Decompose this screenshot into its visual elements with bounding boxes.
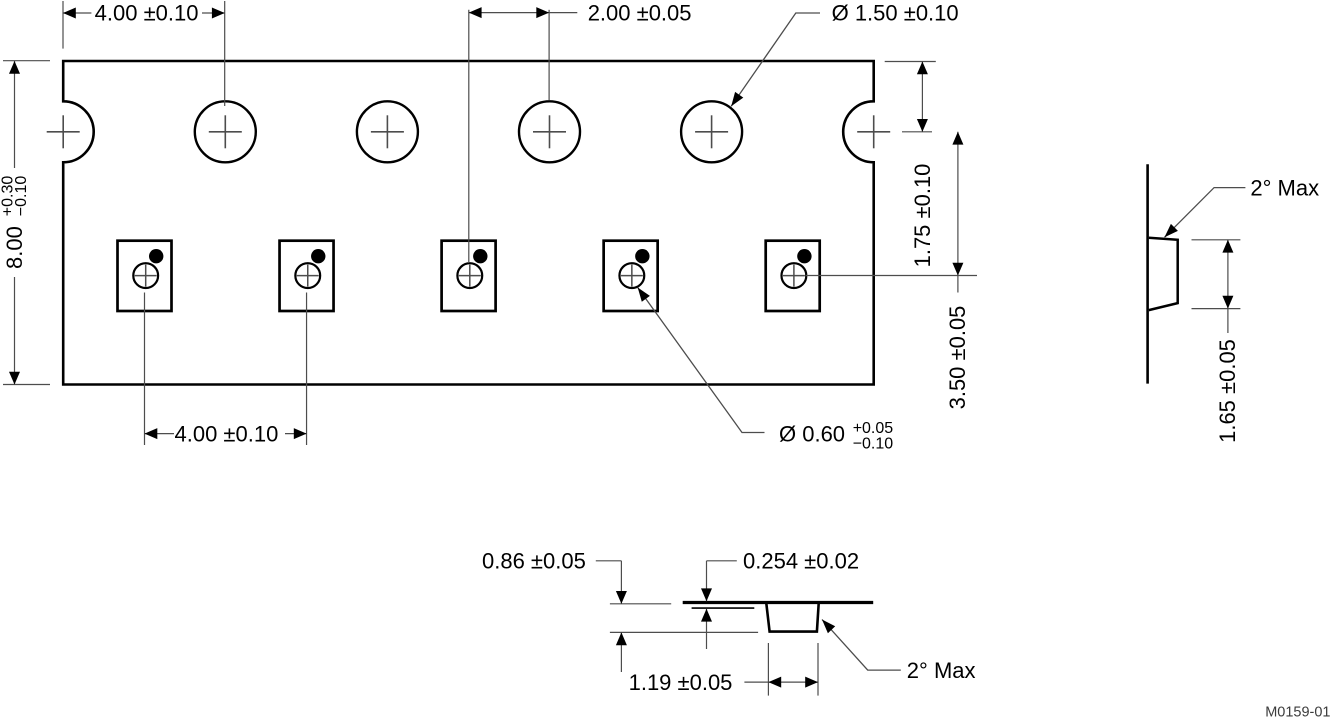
- svg-text:Ø 0.60: Ø 0.60: [779, 421, 845, 446]
- centerline cross, sprocket position 4: [533, 115, 566, 148]
- pocket 4 center hole (circle Ø0.60): [619, 263, 644, 288]
- pocket 2 polarity dot (filled): [311, 249, 325, 263]
- centerline cross, sprocket position 2: [209, 115, 242, 148]
- pocket 3 center hole (circle Ø0.60): [457, 263, 482, 288]
- svg-text:1.75 ±0.10: 1.75 ±0.10: [910, 164, 935, 268]
- dimension text 3.50 ±0.05 (rotated): [945, 306, 970, 410]
- component pocket 5 (rectangle): [766, 241, 820, 311]
- svg-text:M0159-01: M0159-01: [1265, 705, 1330, 717]
- pocket 1 polarity dot (filled): [149, 249, 163, 263]
- section view: tape (thick line): [683, 601, 874, 604]
- leader for sprocket hole diameter Ø 1.50 ±0.10: [731, 13, 820, 106]
- svg-text:−0.10: −0.10: [13, 176, 30, 217]
- dimension 1.19 dimension line + arrows: [744, 677, 818, 688]
- centerline cross, sprocket position 3: [371, 115, 404, 148]
- dimension 1.65 dimension line + arrows: [1222, 240, 1233, 333]
- svg-text:2° Max: 2° Max: [907, 658, 976, 683]
- centerline cross, sprocket position 1: [47, 115, 80, 148]
- pocket centerline extension (to right dimension): [806, 275, 977, 277]
- component pocket 1 (rectangle): [118, 241, 172, 311]
- pocket 1 centerline cross: [135, 265, 157, 287]
- dimension text Ø 1.50 ±0.10: [832, 1, 959, 26]
- pocket 5 polarity dot (filled): [797, 249, 811, 263]
- dimension 1.65 extension lines (side view): [1192, 240, 1241, 309]
- carrier tape outline (plan view) with edge notches: [63, 61, 874, 385]
- dimension 0.254 leader + arrows: [701, 561, 737, 649]
- component pocket 3 (rectangle): [442, 241, 496, 311]
- svg-text:−0.10: −0.10: [853, 435, 894, 452]
- sprocket hole 5 (circle Ø1.50): [681, 101, 742, 162]
- pocket 3 polarity dot (filled): [473, 249, 487, 263]
- svg-text:1.19 ±0.05: 1.19 ±0.05: [629, 670, 733, 695]
- component pocket 4 (rectangle): [604, 241, 658, 311]
- sprocket hole 4 (circle Ø1.50): [519, 101, 580, 162]
- dimension 8.00 dimension line + arrows (left): [9, 61, 20, 385]
- svg-text:Ø 1.50 ±0.10: Ø 1.50 ±0.10: [832, 1, 959, 26]
- dimension text 1.75 ±0.10 (rotated): [910, 164, 935, 268]
- svg-text:4.00 ±0.10: 4.00 ±0.10: [174, 421, 278, 446]
- dimension text 2.00 ±0.05: [588, 1, 692, 26]
- dimension text Ø 0.60 +0.05/-0.10: [779, 420, 893, 452]
- pocket 5 center hole (circle Ø0.60): [782, 263, 807, 288]
- dimension 1.75 extension lines (right of tape): [885, 62, 936, 132]
- leader 2° Max (side view): [1165, 188, 1246, 238]
- dimension 4.00 ±0.10 (sprocket pitch) dimension line + arrows: [63, 8, 225, 19]
- leader 2° Max (section view): [822, 620, 901, 671]
- leader for pocket hole diameter Ø 0.60: [638, 288, 765, 433]
- dimension 0.86 extension lines: [610, 604, 758, 633]
- side view: pocket profile (trapezoid): [1149, 238, 1178, 310]
- section view: tape underside reference line: [692, 607, 755, 609]
- svg-text:0.86 ±0.05: 0.86 ±0.05: [482, 549, 586, 574]
- dimension text 8.00 +0.30/-0.10 (rotated): [0, 176, 30, 269]
- dimension 1.75 dimension line + arrows: [917, 62, 928, 132]
- section view: pocket cross-section (trapezoid): [766, 603, 818, 631]
- dimension 1.19 extension lines: [768, 643, 818, 696]
- centerline cross, sprocket position 6: [857, 115, 890, 148]
- svg-text:1.65 ±0.05: 1.65 ±0.05: [1215, 339, 1240, 443]
- side view: tape edge line: [1146, 164, 1149, 383]
- svg-text:2.00 ±0.05: 2.00 ±0.05: [588, 1, 692, 26]
- svg-text:3.50 ±0.05: 3.50 ±0.05: [945, 306, 970, 410]
- dimension 4.00 ±0.10 (pocket pitch) dimension line + arrows: [145, 428, 307, 439]
- dimension text 1.65 ±0.05 (rotated): [1215, 339, 1240, 443]
- sprocket hole 3 (circle Ø1.50): [357, 101, 418, 162]
- pocket 1 center hole (circle Ø0.60): [133, 263, 158, 288]
- dimension text 4.00 ±0.10 (top): [95, 1, 199, 26]
- dimension 2.00 ±0.05 dimension line + arrows: [469, 7, 578, 18]
- dimension 4.00 ±0.10 (sprocket pitch) extension lines: [63, 1, 225, 106]
- component pocket 2 (rectangle): [280, 241, 334, 311]
- label text 2° Max (section view): [907, 658, 976, 683]
- pocket 3 centerline cross: [459, 265, 481, 287]
- dimension 3.50 dimension line + arrows: [952, 132, 963, 293]
- svg-text:0.254 ±0.02: 0.254 ±0.02: [743, 549, 859, 574]
- dimension 4.00 ±0.10 (pocket pitch) extension lines: [145, 293, 307, 446]
- dimension 2.00 ±0.05 extension lines: [469, 10, 549, 263]
- pocket 5 centerline cross: [783, 265, 805, 287]
- sprocket hole 2 (circle Ø1.50): [195, 101, 256, 162]
- svg-text:8.00: 8.00: [2, 226, 27, 269]
- dimension 8.00 extension lines (left): [3, 61, 50, 385]
- svg-text:2° Max: 2° Max: [1250, 175, 1319, 200]
- svg-text:4.00 ±0.10: 4.00 ±0.10: [95, 1, 199, 26]
- label text 2° Max (side view): [1250, 175, 1319, 200]
- pocket 4 polarity dot (filled): [635, 249, 649, 263]
- dimension text 0.86 ±0.05: [482, 549, 586, 574]
- centerline cross, sprocket position 5: [695, 115, 728, 148]
- dimension text 1.19 ±0.05: [629, 670, 733, 695]
- dimension text 0.254 ±0.02: [743, 549, 859, 574]
- dimension 0.86 leader + arrows: [596, 561, 627, 672]
- pocket 4 centerline cross: [621, 265, 643, 287]
- figure number M0159-01: [1265, 705, 1330, 717]
- pocket 2 center hole (circle Ø0.60): [295, 263, 320, 288]
- dimension text 4.00 ±0.10 (bottom): [174, 421, 278, 446]
- pocket 2 centerline cross: [297, 265, 319, 287]
